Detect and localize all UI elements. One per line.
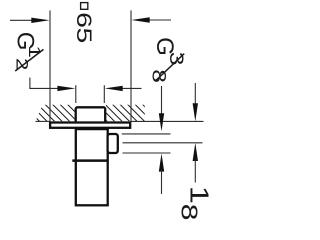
extension line right x=131 (dim 65): [130, 10, 132, 121]
square symbol of dim: [81, 3, 88, 10]
svg-text:6: 6: [72, 12, 96, 28]
flange plate: [50, 123, 130, 128]
G 1/2 label: [12, 32, 44, 71]
G 3/8 down arrowhead: [159, 113, 164, 131]
extension line left x=50 (dim 65): [49, 10, 51, 121]
svg-text:5: 5: [72, 28, 96, 44]
side port: [108, 134, 118, 153]
svg-text:8: 8: [176, 204, 202, 221]
svg-text:2: 2: [12, 58, 31, 70]
extension lines from nut edges: [75, 85, 77, 103]
dim 18 down arrowhead at wall face: [193, 103, 198, 121]
wall surface / extension line right: [131, 120, 204, 122]
dim 18: up arrow: [193, 143, 198, 161]
extension line port bottom: [123, 152, 171, 154]
G 1/2 leader arrowhead at body left edge: [57, 86, 75, 91]
divider line in tube: [72, 159, 108, 162]
dim 65 right arrow line: [148, 19, 171, 21]
tube body: [76, 129, 108, 205]
nut (body above wall): [76, 107, 106, 123]
wall hatching right: [106, 105, 145, 122]
dim 65 left arrow line: [10, 19, 34, 21]
extension line port top: [122, 133, 171, 135]
dim line right part at y=88.4: [122, 87, 142, 89]
dim 65 right arrowhead: [131, 17, 149, 22]
arrowhead at body right edge: [105, 86, 123, 91]
G 1/2 leader: [30, 78, 58, 89]
wall surface line left: [36, 120, 51, 122]
dim 65 left arrowhead: [31, 18, 49, 23]
G 3/8 leader with down arrow: [161, 86, 163, 114]
G 3/8 label: [148, 37, 187, 83]
svg-text:1: 1: [184, 186, 213, 204]
dim 18: down arrow at wall face: [194, 83, 196, 104]
extension line middle (18 dim bottom ref): [123, 142, 203, 144]
up arrow under port (pair of G3/8 dim): [159, 154, 164, 172]
wall hatching left: [36, 105, 75, 122]
